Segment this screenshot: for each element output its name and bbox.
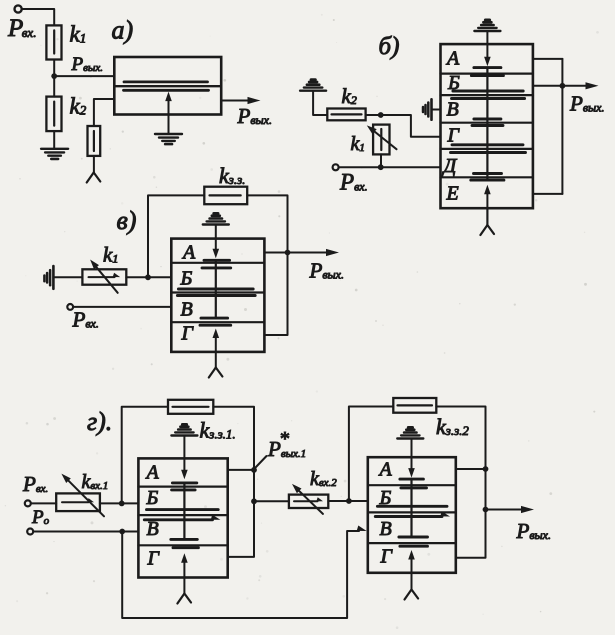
element block 1 body (fig г) [138, 458, 227, 577]
membrane plates В-Г (fig б) [474, 118, 501, 121]
membrane rod (fig б) [486, 68, 488, 181]
svg-text:Рвх.: Рвх. [7, 15, 36, 42]
variable resistor kвх.2 (fig г) [289, 495, 328, 508]
wire chamber А to output node (fig в) [264, 252, 287, 254]
relay partition (fig a) [114, 85, 221, 87]
svg-text:В: В [181, 299, 193, 321]
output node (fig г) [483, 507, 489, 513]
output arrow Pвых (fig г) [486, 509, 525, 511]
wire node to relay block (fig a) [54, 75, 114, 77]
output node (fig б) [560, 83, 566, 89]
wire k2 to ground [53, 131, 55, 149]
svg-text:А: А [181, 242, 196, 264]
node chamber А bus (fig г) [483, 466, 489, 472]
resistor k2 (fig б) [327, 109, 365, 121]
supply-pressure fork symbol (fig г block 1) [177, 594, 184, 604]
svg-text:г).: г). [87, 407, 112, 436]
input port Pвх (fig в) [67, 304, 73, 310]
svg-text:В: В [147, 518, 159, 540]
input port Pвх (fig a) [15, 5, 22, 12]
svg-text:Рвых.: Рвых. [237, 104, 273, 128]
membrane rod block 1 (fig г) [183, 483, 185, 540]
feedback wire left side (fig в) [148, 195, 204, 277]
chamber boundary (fig б) [441, 122, 533, 124]
chamber boundary (fig в) [171, 291, 264, 293]
nozzle arrow down into chamber А block 2 (fig г) [411, 439, 413, 471]
large membrane plates Б-В block 1 (fig г) [147, 508, 219, 511]
membrane plates В-Г (fig в) [201, 317, 228, 320]
wire node to resistor k2 [53, 76, 55, 97]
node Pвых divider (fig a) [51, 73, 57, 79]
long feedback wire to block 2 chamber В (fig г) [122, 531, 359, 618]
supply-pressure fork symbol (fig б) [480, 225, 487, 235]
svg-text:Ро: Ро [31, 507, 50, 528]
node k1-feedback (fig в) [145, 274, 151, 280]
element block 2 body (fig г) [368, 457, 456, 573]
input port Pвх (fig б) [333, 164, 339, 170]
feedback wire left block 1 (fig г) [122, 407, 168, 504]
top ground (fig б) [474, 30, 500, 32]
svg-text:Рвх.: Рвх. [72, 308, 99, 332]
svg-text:Г: Г [380, 546, 394, 568]
svg-text:Б: Б [146, 487, 159, 509]
input port Pвх (fig г) [25, 500, 31, 506]
throttle to supply (fig a) [88, 126, 101, 156]
svg-text:Г: Г [447, 125, 461, 147]
wire Pо to block 1 chamber В (fig г) [33, 531, 138, 533]
supply arrow up into chamber Г block 2 (fig г) [411, 557, 413, 590]
wire Pвх to kвх.1 (fig г) [31, 502, 56, 504]
wire throttle to relay block (fig a) [94, 99, 114, 126]
nozzle arrow down into chamber А (fig в) [215, 225, 217, 252]
membrane plates А-Б (fig б) [474, 66, 501, 69]
membrane rod block 2 (fig г) [410, 479, 412, 537]
wire kвх.2 to node (fig г) [328, 500, 349, 502]
side ground of k1 (fig в) [52, 266, 55, 289]
supply arrow up into chamber Е (fig б) [486, 191, 488, 225]
top ground block 2 (fig г) [397, 437, 423, 439]
svg-text:k1: k1 [351, 133, 365, 155]
svg-text:Рвых.: Рвых. [309, 259, 345, 283]
wire node to kвх.2 (fig г) [254, 500, 289, 502]
node k1-input (fig б) [378, 164, 384, 170]
svg-text:k2: k2 [342, 84, 357, 108]
chamber boundary block 2 (fig г) [368, 511, 456, 513]
membrane plates Д-Е (fig б) [474, 172, 502, 175]
svg-text:kвх.1: kвх.1 [82, 471, 109, 493]
svg-text:Д: Д [442, 155, 458, 177]
svg-text:Рвых.: Рвых. [71, 54, 103, 75]
feedback wire right block 2 (fig г) [436, 407, 485, 558]
membrane plates А-Б (fig в) [204, 259, 230, 262]
node k2-k1 (fig б) [378, 112, 384, 118]
feedback wire right block 1 (fig г) [213, 407, 254, 557]
feedback resistor kз.з. (fig в) [204, 187, 247, 205]
node P*вых1 (fig г) [251, 467, 257, 473]
svg-text:kвх.2: kвх.2 [310, 468, 337, 490]
nozzle arrow down into chamber А (fig б) [486, 31, 488, 60]
chamber boundary (fig в) [171, 262, 264, 264]
chamber boundary (fig б) [441, 148, 533, 150]
svg-text:kз.з.1.: kз.з.1. [200, 418, 236, 443]
wire chamber Б to output node (fig б) [533, 85, 563, 87]
svg-text:Рвх.: Рвх. [339, 170, 368, 195]
nozzle arrow down into chamber А block 1 (fig г) [183, 436, 185, 473]
chamber boundary block 1 (fig г) [138, 514, 227, 516]
wire k1 to input node (fig б) [380, 154, 382, 167]
wire k2 to node (fig б) [366, 114, 381, 116]
supply arrow up into chamber Г (fig в) [215, 335, 217, 367]
wire block bottom to fork (fig б) [486, 208, 488, 225]
svg-text:б): б) [379, 33, 400, 60]
variable resistor k1 (fig в) [82, 269, 126, 284]
input wire Pвх to chamber Д (fig б) [339, 166, 441, 168]
svg-text:kз.з.: kз.з. [219, 163, 245, 188]
ground under relay block (fig a) [155, 133, 182, 135]
node kвх.2 output (fig г) [346, 498, 352, 504]
supply-pressure fork symbol (fig г block 2) [405, 590, 412, 600]
wire k1 to node [53, 60, 55, 77]
wire chamber Е to right bus (fig б) [533, 193, 563, 195]
wire input to resistor k1 [22, 9, 54, 25]
input wire Pвх to chamber В (fig в) [73, 306, 171, 308]
ground under k2 (fig a) [41, 148, 68, 150]
output arrow Pвых (fig a) [221, 100, 251, 102]
svg-text:k2: k2 [70, 94, 87, 119]
chamber boundary block 2 (fig г) [368, 542, 456, 544]
ground of resistor k2 (fig б) [300, 89, 326, 91]
membrane plates А-Б block 1 (fig г) [172, 481, 196, 484]
relay block body (fig a) [114, 57, 221, 115]
svg-text:Б: Б [180, 268, 193, 290]
chamber boundary block 1 (fig г) [138, 486, 227, 488]
output arrow Pвых (fig в) [288, 252, 330, 254]
svg-text:Рвых.: Рвых. [569, 92, 605, 116]
svg-text:k1: k1 [103, 243, 118, 267]
svg-text:k1: k1 [70, 22, 87, 47]
wire ground to k2 (fig б) [313, 91, 327, 115]
side vent ground chamber В (fig б) [432, 109, 441, 111]
svg-text:в): в) [117, 206, 137, 235]
membrane plates В-Г block 2 (fig г) [399, 536, 428, 539]
svg-text:В: В [447, 99, 459, 121]
output arrow Pвых (fig б) [562, 85, 588, 87]
svg-text:Рвых.: Рвых. [516, 519, 552, 543]
feedback resistor kз.з.1 (fig г) [168, 400, 213, 414]
top ground (fig в) [203, 223, 229, 225]
svg-text:kз.з.2: kз.з.2 [436, 414, 469, 439]
chamber boundary block 2 (fig г) [368, 484, 456, 486]
variable resistor kвх.1 (fig г) [56, 493, 100, 511]
wire ground to k1 (fig в) [53, 276, 82, 278]
chamber boundary (fig б) [441, 94, 533, 96]
svg-text:А: А [445, 48, 460, 70]
input port Pо (fig г) [27, 529, 33, 535]
membrane upper plate (fig a) [124, 81, 208, 84]
wire node to block 2 chamber Б (fig г) [349, 500, 368, 502]
large membrane plates Б-В (fig в) [178, 288, 253, 291]
chamber boundary block 1 (fig г) [138, 544, 227, 546]
wire node to chamber Г (fig б) [381, 115, 441, 137]
supply-pressure fork symbol (fig в) [209, 368, 216, 378]
large membrane plates Б-В block 2 (fig г) [377, 505, 447, 508]
feedback wire right side (fig в) [247, 195, 287, 335]
svg-text:*: * [279, 428, 289, 450]
variable resistor k1 (fig б) [373, 125, 389, 155]
svg-text:А: А [145, 462, 160, 484]
supply-pressure fork symbol (fig a) [87, 173, 94, 183]
nozzle arrow from ground (fig a) [168, 98, 170, 134]
membrane plates А-Б block 2 (fig г) [400, 478, 424, 481]
svg-text:Г: Г [181, 323, 195, 345]
element block body (fig б) [441, 44, 533, 208]
resistor k1 (fig a) [46, 25, 61, 59]
wire kвх.1 to block 1 chamber Б (fig г) [100, 502, 138, 504]
svg-text:а): а) [112, 16, 134, 45]
membrane rod (fig в) [215, 260, 217, 318]
node Pо line (fig г) [119, 529, 125, 535]
wire throttle to fork (fig a) [93, 156, 95, 173]
node to kвх.2 (fig г) [251, 498, 257, 504]
chamber boundary (fig б) [441, 72, 533, 74]
wire chamber А to right bus block 2 (fig г) [456, 468, 486, 470]
supply arrow up into chamber Г block 1 (fig г) [183, 560, 185, 594]
svg-text:Рвх.: Рвх. [22, 472, 48, 496]
svg-text:В: В [380, 518, 392, 540]
output node (fig в) [285, 250, 291, 256]
membrane lower plate (fig a) [124, 89, 209, 92]
svg-text:Е: Е [446, 183, 459, 205]
resistor k2 (fig a) [46, 97, 61, 132]
membrane plates В-Г block 1 (fig г) [171, 538, 198, 541]
wire chamber А to node P*вых1 (fig г) [228, 469, 254, 471]
pointer line to label P*вых1 (fig г) [256, 456, 267, 468]
right bus wire (fig б) [561, 59, 563, 194]
feedback wire left block 2 (fig г) [349, 407, 393, 502]
wire chamber А to right bus (fig б) [533, 58, 563, 60]
top ground block 1 (fig г) [171, 434, 197, 436]
feedback resistor kз.з.2 (fig г) [393, 398, 436, 413]
chamber boundary (fig б) [441, 176, 533, 178]
chamber boundary (fig в) [171, 321, 264, 323]
wire k1 to node (fig в) [126, 276, 171, 278]
large membrane plates Г-Д (fig б) [452, 143, 523, 146]
svg-text:Г: Г [147, 548, 161, 570]
node kвх.1 output (fig г) [119, 501, 125, 507]
element block body (fig в) [171, 239, 264, 352]
svg-text:А: А [378, 459, 393, 481]
large membrane plates Б-В (fig б) [453, 90, 523, 93]
